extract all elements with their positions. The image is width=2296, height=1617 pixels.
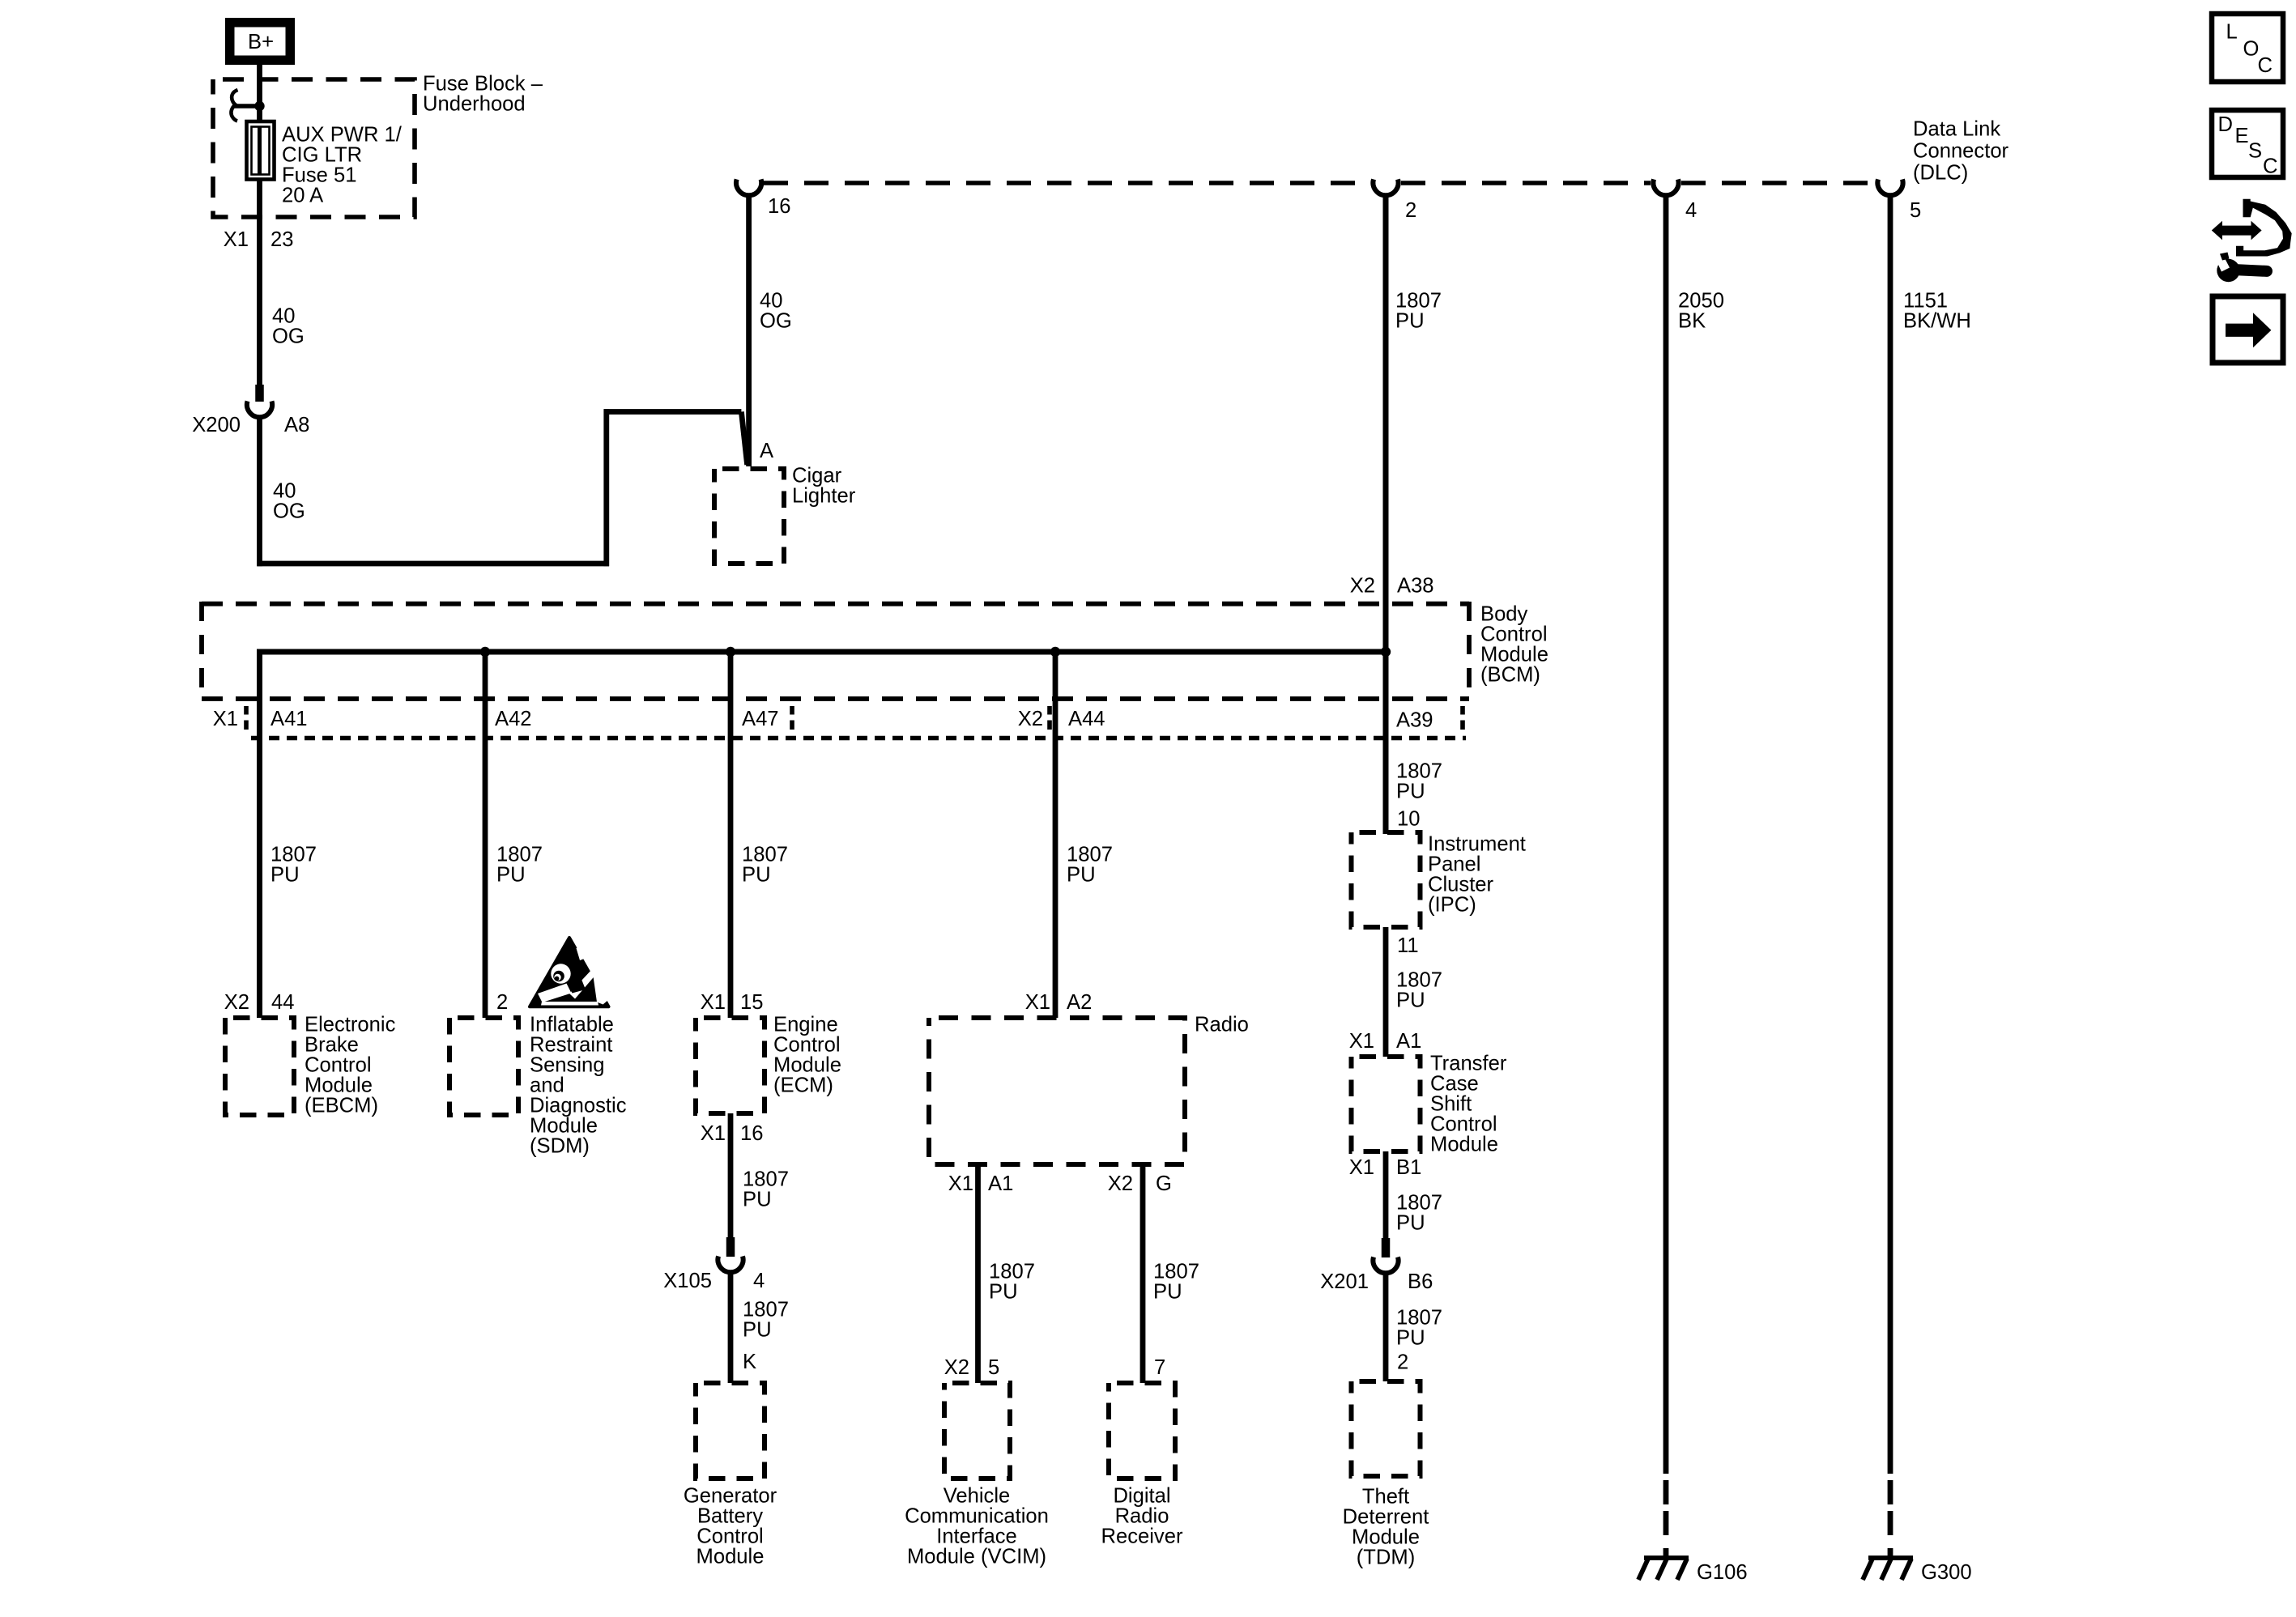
SIR caution triangle symbol bbox=[530, 938, 609, 1006]
svg-text:E: E bbox=[2235, 125, 2249, 147]
svg-text:CIG LTR: CIG LTR bbox=[282, 144, 362, 167]
svg-text:44: 44 bbox=[271, 991, 294, 1014]
svg-text:1807: 1807 bbox=[1396, 1192, 1442, 1215]
svg-text:Module: Module bbox=[773, 1054, 841, 1077]
svg-text:Case: Case bbox=[1430, 1073, 1479, 1096]
wire from B+ to fuse bbox=[257, 65, 262, 123]
svg-text:Transfer: Transfer bbox=[1430, 1053, 1507, 1075]
svg-text:Inflatable: Inflatable bbox=[530, 1014, 614, 1036]
svg-text:1807: 1807 bbox=[1396, 969, 1442, 992]
bus drop connector pin 5 bbox=[1877, 179, 1902, 195]
svg-text:Fuse 51: Fuse 51 bbox=[282, 164, 356, 187]
svg-text:(ECM): (ECM) bbox=[773, 1074, 833, 1097]
junction dot trunk/A39 bbox=[1381, 647, 1391, 657]
ground wire 1151 BK/WH bbox=[1888, 194, 1893, 1474]
svg-text:(EBCM): (EBCM) bbox=[305, 1095, 378, 1117]
legend DESC icon bbox=[2212, 110, 2283, 178]
svg-text:Data Link: Data Link bbox=[1913, 118, 2000, 141]
bus drop connector pin 4 bbox=[1653, 179, 1678, 195]
serial data bus (dashed) bbox=[764, 181, 1370, 185]
svg-text:AUX PWR 1/: AUX PWR 1/ bbox=[282, 124, 403, 147]
svg-text:X1: X1 bbox=[948, 1172, 973, 1195]
svg-text:Sensing: Sensing bbox=[530, 1054, 605, 1077]
svg-text:PU: PU bbox=[743, 1189, 772, 1211]
svg-text:B6: B6 bbox=[1408, 1270, 1433, 1293]
svg-text:1807: 1807 bbox=[496, 844, 543, 866]
svg-text:G: G bbox=[1156, 1172, 1172, 1195]
svg-text:Module: Module bbox=[696, 1546, 765, 1568]
connector X200 pin A8 bbox=[247, 385, 272, 417]
svg-text:BK/WH: BK/WH bbox=[1903, 310, 1971, 333]
svg-text:A44: A44 bbox=[1068, 708, 1105, 730]
svg-text:40: 40 bbox=[760, 290, 782, 313]
inflatable restraint SDM box bbox=[449, 1014, 627, 1158]
battery feed terminal B+ bbox=[225, 18, 295, 65]
svg-text:1807: 1807 bbox=[989, 1261, 1035, 1283]
svg-text:PU: PU bbox=[989, 1281, 1018, 1304]
svg-text:1807: 1807 bbox=[742, 844, 788, 866]
svg-text:Generator: Generator bbox=[684, 1485, 777, 1508]
svg-text:BK: BK bbox=[1678, 310, 1706, 333]
svg-text:PU: PU bbox=[742, 864, 771, 887]
svg-text:1807: 1807 bbox=[1395, 290, 1442, 313]
vehicle communication interface module (VCIM) box bbox=[905, 1383, 1049, 1568]
svg-text:B+: B+ bbox=[248, 31, 274, 53]
svg-text:16: 16 bbox=[768, 195, 790, 218]
svg-text:11: 11 bbox=[1397, 934, 1419, 957]
svg-text:OG: OG bbox=[760, 310, 792, 333]
svg-text:Electronic: Electronic bbox=[305, 1014, 396, 1036]
svg-text:2: 2 bbox=[1397, 1351, 1408, 1374]
transfer case shift control module box bbox=[1352, 1053, 1507, 1156]
wire X105 to generator battery control module (1807 PU) bbox=[728, 1272, 734, 1383]
svg-text:PU: PU bbox=[270, 864, 300, 887]
legend adjust/repair icon (outline arrow) bbox=[2236, 199, 2292, 257]
svg-text:S: S bbox=[2248, 140, 2262, 163]
wire BCM A47 to ECM (1807 PU) bbox=[728, 652, 734, 1018]
fuse block bus-bar tap symbol bbox=[231, 90, 259, 121]
svg-text:A41: A41 bbox=[270, 708, 308, 730]
svg-text:Module: Module bbox=[305, 1074, 373, 1097]
svg-text:Deterrent: Deterrent bbox=[1343, 1506, 1429, 1529]
svg-text:X2: X2 bbox=[1018, 708, 1043, 730]
wire radio G to digital radio receiver (1807 PU) bbox=[1140, 1164, 1146, 1383]
wire BCM A42 to SDM (1807 PU) bbox=[483, 652, 488, 1018]
svg-text:Body: Body bbox=[1480, 603, 1528, 626]
electronic brake control module (EBCM) box bbox=[225, 1014, 396, 1117]
svg-text:Control: Control bbox=[1430, 1113, 1497, 1136]
wire bus to cigar lighter bbox=[746, 194, 752, 466]
svg-text:Communication: Communication bbox=[905, 1505, 1049, 1528]
svg-text:Brake: Brake bbox=[305, 1034, 359, 1057]
svg-text:1807: 1807 bbox=[1067, 844, 1113, 866]
svg-text:40: 40 bbox=[272, 305, 295, 328]
wire X200 to cigar lighter (40 OG) bbox=[257, 417, 262, 566]
svg-text:B1: B1 bbox=[1396, 1156, 1421, 1179]
svg-text:2050: 2050 bbox=[1678, 290, 1724, 313]
svg-text:Module: Module bbox=[1352, 1526, 1420, 1549]
svg-text:Receiver: Receiver bbox=[1101, 1526, 1183, 1548]
svg-text:X2: X2 bbox=[1350, 575, 1375, 598]
svg-text:X2: X2 bbox=[944, 1356, 969, 1379]
svg-text:(SDM): (SDM) bbox=[530, 1135, 590, 1158]
legend wrench icon bbox=[2217, 253, 2273, 283]
svg-text:PU: PU bbox=[1067, 864, 1096, 887]
svg-text:Lighter: Lighter bbox=[792, 485, 856, 508]
svg-text:2: 2 bbox=[1405, 199, 1416, 222]
junction dot at fuse feed bbox=[254, 101, 264, 111]
svg-text:X1: X1 bbox=[1349, 1156, 1374, 1179]
svg-text:G106: G106 bbox=[1697, 1561, 1748, 1584]
instrument panel cluster (IPC) box bbox=[1352, 832, 1526, 927]
svg-text:5: 5 bbox=[1910, 199, 1921, 222]
svg-text:OG: OG bbox=[272, 326, 305, 348]
BCM internal bus wire bbox=[260, 652, 1387, 1018]
body control module (BCM) box bbox=[202, 602, 1548, 701]
svg-text:X1: X1 bbox=[213, 708, 238, 730]
svg-text:X1: X1 bbox=[1025, 991, 1050, 1014]
svg-text:PU: PU bbox=[1396, 781, 1425, 803]
svg-text:A42: A42 bbox=[495, 708, 532, 730]
connector X105 pin 4 bbox=[718, 1237, 743, 1272]
wire BCM A39 to IPC (1807 PU) bbox=[1383, 652, 1389, 834]
svg-text:X2: X2 bbox=[224, 991, 249, 1014]
connector X201 pin B6 bbox=[1373, 1238, 1398, 1273]
wire IPC to transfer case module (1807 PU) bbox=[1383, 927, 1389, 1057]
svg-text:PU: PU bbox=[1396, 989, 1425, 1012]
svg-text:G300: G300 bbox=[1921, 1561, 1972, 1584]
svg-text:and: and bbox=[530, 1074, 564, 1097]
svg-text:Engine: Engine bbox=[773, 1014, 838, 1036]
svg-text:1807: 1807 bbox=[1396, 760, 1442, 783]
svg-text:X1: X1 bbox=[1349, 1030, 1374, 1053]
svg-text:(TDM): (TDM) bbox=[1357, 1547, 1415, 1569]
svg-text:Digital: Digital bbox=[1113, 1485, 1170, 1508]
bus drop connector pin 16 bbox=[736, 179, 761, 195]
dashed continuation to G300 bbox=[1888, 1480, 1893, 1504]
svg-text:A: A bbox=[760, 440, 774, 462]
digital radio receiver box bbox=[1101, 1383, 1183, 1548]
svg-text:20 A: 20 A bbox=[282, 185, 324, 207]
junction dot A42 branch bbox=[480, 647, 490, 657]
svg-text:C: C bbox=[2258, 54, 2273, 77]
svg-text:1807: 1807 bbox=[1153, 1261, 1199, 1283]
svg-text:X1: X1 bbox=[701, 1122, 726, 1145]
svg-text:X105: X105 bbox=[663, 1270, 712, 1292]
svg-text:(IPC): (IPC) bbox=[1428, 894, 1476, 917]
svg-text:PU: PU bbox=[496, 864, 526, 887]
wire X201 to TDM (1807 PU) bbox=[1383, 1273, 1389, 1381]
svg-text:Module: Module bbox=[1480, 644, 1548, 666]
svg-text:Vehicle: Vehicle bbox=[944, 1485, 1011, 1508]
generator battery control module box bbox=[684, 1383, 777, 1568]
svg-text:1807: 1807 bbox=[1396, 1307, 1442, 1330]
svg-text:23: 23 bbox=[270, 228, 293, 251]
svg-text:Control: Control bbox=[773, 1034, 841, 1057]
svg-text:Instrument: Instrument bbox=[1428, 833, 1526, 856]
svg-text:1807: 1807 bbox=[743, 1299, 789, 1321]
svg-text:L: L bbox=[2226, 21, 2238, 44]
bus drop connector pin 2 bbox=[1373, 179, 1398, 195]
svg-text:C: C bbox=[2263, 155, 2277, 178]
svg-text:X1: X1 bbox=[224, 228, 249, 251]
svg-text:Module: Module bbox=[530, 1115, 598, 1138]
svg-text:Connector: Connector bbox=[1913, 140, 2009, 163]
svg-text:Control: Control bbox=[305, 1054, 372, 1077]
svg-text:Restraint: Restraint bbox=[530, 1034, 612, 1057]
svg-text:D: D bbox=[2218, 113, 2233, 136]
svg-text:Radio: Radio bbox=[1115, 1505, 1169, 1528]
svg-text:(BCM): (BCM) bbox=[1480, 664, 1540, 687]
svg-text:Diagnostic: Diagnostic bbox=[530, 1095, 627, 1117]
ground G300 symbol bbox=[1863, 1558, 1913, 1580]
svg-text:Control: Control bbox=[696, 1526, 764, 1548]
svg-text:X1: X1 bbox=[701, 991, 726, 1014]
svg-text:PU: PU bbox=[1395, 310, 1425, 333]
svg-text:Panel: Panel bbox=[1428, 853, 1480, 876]
svg-text:10: 10 bbox=[1397, 808, 1420, 831]
svg-text:15: 15 bbox=[740, 991, 763, 1014]
svg-text:Control: Control bbox=[1480, 623, 1548, 646]
svg-text:A1: A1 bbox=[988, 1172, 1013, 1195]
junction dot A47 branch bbox=[726, 647, 735, 657]
wire ECM to X105 (1807 PU) bbox=[728, 1113, 734, 1237]
svg-text:A39: A39 bbox=[1396, 709, 1433, 732]
svg-text:4: 4 bbox=[753, 1270, 765, 1292]
svg-text:Radio: Radio bbox=[1195, 1014, 1249, 1036]
svg-text:Module: Module bbox=[1430, 1134, 1498, 1156]
svg-text:OG: OG bbox=[273, 500, 305, 523]
svg-text:PU: PU bbox=[743, 1319, 772, 1342]
svg-text:PU: PU bbox=[1396, 1212, 1425, 1235]
svg-text:1807: 1807 bbox=[743, 1168, 789, 1191]
trunk wire bus to BCM (1807 PU) bbox=[1383, 194, 1389, 652]
svg-text:Cigar: Cigar bbox=[792, 465, 842, 487]
svg-text:PU: PU bbox=[1153, 1281, 1182, 1304]
junction dot A44 branch bbox=[1050, 647, 1060, 657]
svg-text:X2: X2 bbox=[1108, 1172, 1133, 1195]
svg-text:X201: X201 bbox=[1320, 1270, 1369, 1293]
svg-text:Cluster: Cluster bbox=[1428, 874, 1494, 896]
theft deterrent module (TDM) box bbox=[1343, 1381, 1429, 1569]
wire TCSCM to X201 (1807 PU) bbox=[1383, 1151, 1389, 1238]
svg-text:PU: PU bbox=[1396, 1327, 1425, 1350]
engine control module (ECM) box bbox=[696, 1014, 841, 1113]
wire BCM A44 to radio (1807 PU) bbox=[1053, 652, 1059, 1018]
svg-text:2: 2 bbox=[496, 991, 508, 1014]
svg-text:A38: A38 bbox=[1397, 575, 1434, 598]
legend LOC icon bbox=[2212, 14, 2283, 82]
ground G106 symbol bbox=[1638, 1558, 1689, 1580]
svg-text:K: K bbox=[743, 1351, 756, 1373]
svg-text:Shift: Shift bbox=[1430, 1093, 1472, 1116]
svg-text:A8: A8 bbox=[284, 414, 309, 436]
pin row separators bbox=[244, 706, 249, 715]
legend adjust/repair icon (double arrow) bbox=[2212, 221, 2262, 240]
svg-text:40: 40 bbox=[273, 480, 296, 503]
wire radio A1 to VCIM (1807 PU) bbox=[975, 1164, 981, 1383]
svg-text:(DLC): (DLC) bbox=[1913, 162, 1968, 185]
svg-text:A2: A2 bbox=[1067, 991, 1092, 1014]
legend forward arrow icon bbox=[2213, 296, 2283, 363]
svg-text:X200: X200 bbox=[192, 414, 241, 436]
svg-text:Module (VCIM): Module (VCIM) bbox=[907, 1546, 1046, 1568]
svg-text:4: 4 bbox=[1685, 199, 1697, 222]
svg-text:A47: A47 bbox=[742, 708, 779, 730]
cigar lighter module box bbox=[714, 465, 856, 564]
svg-text:5: 5 bbox=[988, 1356, 999, 1379]
svg-text:Fuse Block –: Fuse Block – bbox=[423, 73, 543, 96]
dashed continuation to G106 bbox=[1663, 1480, 1669, 1504]
BCM pin row (dotted) bbox=[251, 736, 1466, 741]
svg-text:Interface: Interface bbox=[936, 1526, 1017, 1548]
fuse block - underhood box bbox=[213, 73, 543, 217]
ground wire 2050 BK bbox=[1663, 194, 1669, 1474]
svg-text:Underhood: Underhood bbox=[423, 93, 526, 116]
svg-text:Battery: Battery bbox=[697, 1505, 763, 1528]
svg-text:1151: 1151 bbox=[1903, 290, 1948, 313]
svg-text:1807: 1807 bbox=[270, 844, 317, 866]
wire fuse to pin X1-23 bbox=[257, 179, 262, 385]
radio box bbox=[929, 1014, 1249, 1165]
svg-text:O: O bbox=[2243, 38, 2260, 61]
svg-text:Theft: Theft bbox=[1362, 1486, 1409, 1508]
svg-text:A1: A1 bbox=[1396, 1030, 1421, 1053]
svg-text:16: 16 bbox=[740, 1122, 763, 1145]
svg-text:7: 7 bbox=[1154, 1356, 1165, 1379]
fuse 51 AUX PWR 1 / CIG LTR 20A bbox=[247, 121, 403, 207]
